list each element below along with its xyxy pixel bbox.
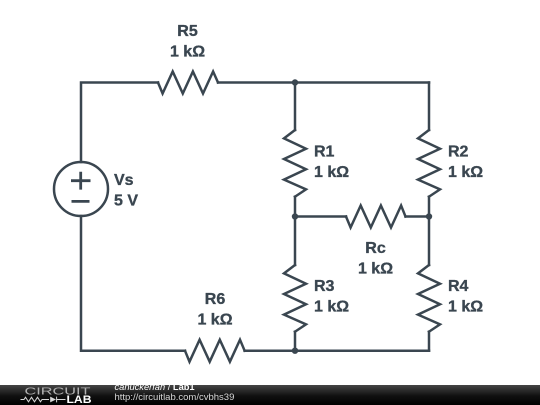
resistor R1 — [284, 130, 306, 197]
svg-text:1 kΩ: 1 kΩ — [314, 299, 349, 316]
logo diode triangle — [50, 397, 56, 403]
svg-text:LAB: LAB — [67, 394, 92, 405]
resistor R3 — [284, 265, 306, 332]
resistor R6 — [185, 340, 245, 362]
wire: R4 bottom lead — [428, 332, 431, 351]
footer bar — [0, 385, 540, 405]
svg-text:canuckerfan / Lab1: canuckerfan / Lab1 — [115, 382, 195, 392]
svg-text:5 V: 5 V — [114, 193, 138, 210]
svg-text:R2: R2 — [448, 144, 469, 161]
svg-text:1 kΩ: 1 kΩ — [358, 261, 393, 278]
svg-text:1 kΩ: 1 kΩ — [448, 164, 483, 181]
wire: R2 top lead — [428, 83, 431, 131]
svg-text:Rc: Rc — [365, 240, 386, 257]
svg-text:R5: R5 — [177, 23, 198, 40]
wire: Rc right to node C — [406, 215, 430, 218]
resistor R2 — [418, 130, 440, 197]
node D junction dot — [292, 348, 298, 354]
node B junction dot — [292, 213, 298, 219]
logo resistor-diode glyph — [21, 397, 66, 403]
Vs minus sign — [72, 200, 90, 203]
wire: R4 top lead — [428, 217, 431, 266]
wire: R2 bottom lead — [428, 197, 431, 217]
svg-text:R4: R4 — [448, 278, 469, 295]
resistor R5 — [158, 72, 218, 94]
svg-text:R6: R6 — [205, 291, 226, 308]
resistor R4 — [418, 265, 440, 332]
wire: R1 bottom lead — [294, 197, 297, 217]
wire: R3 top lead — [294, 217, 297, 266]
wire: R5 right to top-right corner — [218, 81, 429, 84]
svg-text:R3: R3 — [314, 278, 335, 295]
svg-text:1 kΩ: 1 kΩ — [197, 312, 232, 329]
svg-text:R1: R1 — [314, 144, 335, 161]
node A junction dot — [292, 79, 298, 85]
wire: R1 top lead from node A — [294, 83, 297, 131]
svg-text:http://circuitlab.com/cvbhs39: http://circuitlab.com/cvbhs39 — [115, 392, 235, 403]
wire: R6 left to Vs bottom — [81, 216, 185, 351]
resistor Rc — [346, 206, 406, 228]
svg-text:Vs: Vs — [114, 172, 134, 189]
wire: bottom right run — [295, 349, 429, 352]
svg-text:1 kΩ: 1 kΩ — [170, 44, 205, 61]
wire: node B to Rc left — [295, 215, 346, 218]
voltage source Vs circle — [54, 162, 108, 216]
svg-text:1 kΩ: 1 kΩ — [314, 164, 349, 181]
wire: Vs top to R5 left — [81, 83, 158, 163]
wire: node D to R6 right — [245, 349, 295, 352]
node C junction dot — [426, 213, 432, 219]
svg-text:1 kΩ: 1 kΩ — [448, 299, 483, 316]
wire: R3 bottom lead — [294, 332, 297, 351]
Vs plus sign — [71, 172, 91, 190]
